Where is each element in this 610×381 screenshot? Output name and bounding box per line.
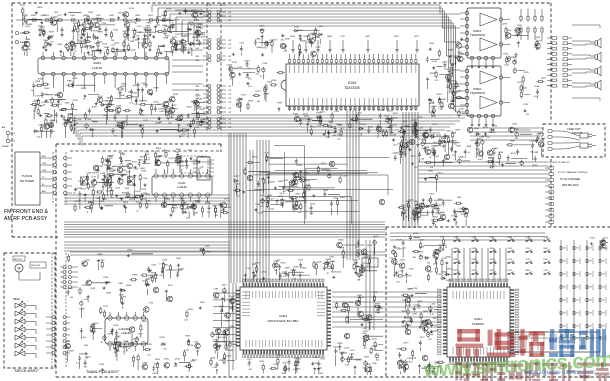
svg-text:R933: R933 (185, 336, 191, 338)
svg-text:Q567: Q567 (472, 248, 476, 250)
svg-text:D404: D404 (188, 309, 194, 311)
svg-text:C869: C869 (515, 34, 521, 36)
svg-text:R865: R865 (67, 80, 73, 82)
svg-text:LA3161: LA3161 (121, 331, 131, 335)
svg-text:Q316: Q316 (205, 202, 211, 204)
svg-text:D224: D224 (113, 325, 119, 327)
svg-text:IC201: IC201 (93, 61, 101, 65)
svg-text:0.022: 0.022 (270, 209, 275, 211)
svg-text:TUN101: TUN101 (22, 174, 33, 178)
svg-text:C961: C961 (298, 260, 304, 262)
svg-text:C682: C682 (200, 302, 206, 304)
svg-text:R349: R349 (441, 138, 447, 140)
svg-text:R706: R706 (333, 198, 339, 200)
svg-text:D552: D552 (517, 82, 523, 84)
svg-text:C698: C698 (92, 173, 98, 175)
svg-text:R430: R430 (142, 321, 148, 323)
svg-text:R552: R552 (192, 360, 198, 362)
svg-text:D374: D374 (118, 12, 124, 14)
svg-text:R657: R657 (179, 269, 185, 271)
svg-text:C959: C959 (305, 185, 311, 187)
svg-text:M: M (18, 267, 21, 271)
svg-text:C473: C473 (181, 44, 187, 46)
svg-text:R510: R510 (488, 157, 494, 159)
svg-text:FM ANT: FM ANT (2, 145, 10, 148)
svg-text:C803: C803 (267, 81, 273, 83)
svg-text:L: L (27, 341, 28, 343)
svg-text:Q870: Q870 (179, 198, 185, 200)
svg-text:R524: R524 (141, 171, 147, 173)
svg-text:Q849: Q849 (446, 257, 452, 259)
svg-text:R724: R724 (103, 277, 109, 279)
svg-text:220: 220 (85, 358, 88, 360)
svg-text:0.01: 0.01 (83, 337, 87, 339)
svg-text:C393: C393 (544, 270, 548, 272)
svg-text:R825: R825 (437, 94, 443, 96)
svg-text:R186: R186 (510, 57, 516, 59)
svg-text:C735: C735 (398, 270, 404, 272)
svg-text:100: 100 (70, 297, 73, 299)
svg-text:D381: D381 (544, 259, 548, 261)
svg-text:Q533: Q533 (173, 94, 179, 96)
svg-text:C667: C667 (236, 99, 242, 101)
svg-text:R239: R239 (293, 266, 299, 268)
svg-text:C589: C589 (536, 133, 542, 135)
svg-text:L: L (27, 317, 28, 319)
svg-text:100: 100 (287, 368, 290, 370)
svg-text:OUT: OUT (228, 44, 231, 46)
svg-text:R432: R432 (88, 12, 94, 14)
svg-text:Q643: Q643 (419, 239, 425, 241)
svg-text:D641: D641 (114, 43, 120, 45)
svg-text:C995: C995 (86, 119, 92, 121)
svg-text:R687: R687 (510, 141, 516, 143)
svg-text:D137: D137 (372, 339, 378, 341)
svg-text:R720: R720 (508, 270, 512, 272)
svg-text:R447: R447 (92, 121, 98, 123)
svg-text:TC9297F: TC9297F (472, 322, 485, 326)
svg-text:220: 220 (163, 349, 166, 351)
svg-text:R859: R859 (38, 7, 44, 9)
svg-text:Q195: Q195 (502, 24, 508, 26)
svg-text:R848: R848 (81, 88, 87, 90)
svg-text:R748: R748 (534, 86, 540, 88)
svg-text:D132: D132 (113, 30, 119, 32)
svg-text:Q627: Q627 (541, 77, 547, 79)
svg-text:D791: D791 (538, 40, 544, 42)
svg-text:0.01: 0.01 (476, 149, 480, 151)
svg-text:Q688: Q688 (472, 259, 476, 261)
svg-text:D177: D177 (398, 249, 404, 251)
svg-text:220: 220 (393, 144, 396, 146)
svg-text:TDA1557Q: TDA1557Q (470, 91, 486, 95)
svg-text:D813: D813 (450, 101, 456, 103)
svg-text:Q129: Q129 (411, 156, 417, 158)
svg-text:R241: R241 (132, 161, 138, 163)
svg-text:0.022: 0.022 (504, 64, 509, 66)
svg-text:R160: R160 (187, 106, 193, 108)
svg-text:R777: R777 (123, 31, 129, 33)
svg-text:1000P: 1000P (431, 116, 437, 118)
svg-text:C862: C862 (490, 270, 494, 272)
svg-text:OUT: OUT (228, 127, 231, 129)
svg-text:Q784: Q784 (169, 158, 175, 160)
svg-text:Q170: Q170 (280, 193, 286, 195)
svg-text:L: L (27, 333, 28, 335)
svg-text:OUT: OUT (228, 102, 231, 104)
svg-text:MINI DIN JACK: MINI DIN JACK (562, 184, 579, 187)
svg-text:C798: C798 (334, 111, 340, 113)
svg-text:Q218: Q218 (229, 326, 235, 328)
svg-text:TDA1557Q: TDA1557Q (470, 33, 486, 37)
svg-text:Q970: Q970 (326, 170, 332, 172)
svg-text:Q666: Q666 (25, 39, 31, 41)
svg-text:C985: C985 (38, 106, 44, 108)
svg-text:0.022: 0.022 (102, 165, 107, 167)
svg-text:C373: C373 (137, 26, 143, 28)
svg-text:R109: R109 (273, 364, 279, 366)
svg-text:C176: C176 (349, 350, 355, 352)
svg-text:1000P: 1000P (270, 182, 276, 184)
svg-text:L: L (27, 309, 28, 311)
svg-text:C409: C409 (490, 248, 494, 250)
svg-text:R632: R632 (428, 171, 434, 173)
svg-text:Q568: Q568 (285, 38, 291, 40)
svg-text:R499: R499 (92, 106, 98, 108)
svg-text:0.01: 0.01 (37, 137, 41, 139)
svg-text:R981: R981 (98, 32, 104, 34)
svg-text:OSC: OSC (42, 163, 47, 165)
svg-text:AM ANT: AM ANT (20, 41, 28, 44)
svg-text:R835: R835 (108, 101, 114, 103)
svg-text:R553: R553 (107, 98, 113, 100)
svg-text:1000P: 1000P (68, 351, 74, 353)
svg-text:R969: R969 (296, 194, 302, 196)
svg-text:C572: C572 (247, 359, 253, 361)
svg-text:C124: C124 (392, 125, 398, 127)
svg-text:100: 100 (103, 115, 106, 117)
svg-text:C370: C370 (232, 62, 238, 64)
svg-text:AGC: AGC (42, 190, 47, 193)
svg-text:100: 100 (136, 202, 139, 204)
svg-text:Q776: Q776 (162, 260, 168, 262)
svg-text:OUT: OUT (228, 90, 231, 92)
svg-text:D685: D685 (454, 259, 458, 261)
svg-text:D816: D816 (292, 174, 298, 176)
svg-text:C513: C513 (218, 360, 224, 362)
svg-text:R996: R996 (93, 31, 99, 33)
svg-text:R991: R991 (147, 23, 153, 25)
svg-text:1000P: 1000P (182, 208, 188, 210)
svg-text:IC901: IC901 (474, 317, 482, 321)
svg-text:LA1135: LA1135 (92, 66, 102, 70)
svg-text:Q906: Q906 (352, 260, 358, 262)
svg-text:R565: R565 (79, 354, 85, 356)
svg-text:0.01: 0.01 (111, 190, 115, 192)
svg-text:220: 220 (427, 263, 430, 265)
svg-text:D588: D588 (111, 170, 117, 172)
svg-text:OUT: OUT (228, 119, 231, 121)
svg-text:MOTOR: MOTOR (14, 259, 22, 261)
svg-text:D412: D412 (176, 258, 182, 260)
svg-text:R655: R655 (122, 83, 128, 85)
svg-text:Q843: Q843 (262, 271, 268, 273)
svg-text:"DECK ASSY": "DECK ASSY" (14, 368, 40, 373)
svg-text:R980: R980 (133, 275, 139, 277)
svg-text:R252: R252 (393, 113, 399, 115)
svg-text:1000P: 1000P (79, 309, 85, 311)
svg-text:C595: C595 (402, 139, 408, 141)
svg-text:D479: D479 (403, 343, 409, 345)
svg-text:D561: D561 (205, 246, 211, 248)
svg-text:C385: C385 (65, 103, 71, 105)
svg-text:D270: D270 (366, 256, 372, 258)
svg-text:D546: D546 (421, 140, 427, 142)
svg-text:R532: R532 (20, 5, 26, 7)
svg-text:R975: R975 (172, 37, 178, 39)
svg-text:C224: C224 (141, 189, 147, 191)
svg-text:C594: C594 (526, 248, 530, 250)
svg-text:C131: C131 (283, 180, 289, 182)
svg-text:R804: R804 (138, 159, 144, 161)
svg-text:0.022: 0.022 (152, 373, 157, 375)
svg-text:FM FRONT END &: FM FRONT END & (4, 209, 49, 215)
svg-text:C960: C960 (143, 178, 149, 180)
svg-text:R503: R503 (156, 148, 162, 150)
svg-text:C623: C623 (524, 72, 530, 74)
svg-text:0.01: 0.01 (98, 53, 102, 55)
svg-text:OUT: OUT (228, 98, 231, 100)
svg-text:100: 100 (357, 280, 360, 282)
svg-text:C554: C554 (407, 362, 413, 364)
svg-text:C540: C540 (522, 88, 528, 90)
svg-text:D361: D361 (277, 355, 283, 357)
svg-text:Q525: Q525 (317, 262, 323, 264)
svg-text:GND: GND (42, 170, 47, 172)
svg-text:100: 100 (65, 123, 68, 125)
svg-text:D785: D785 (340, 197, 346, 199)
svg-text:Q122: Q122 (508, 259, 512, 261)
svg-text:uPD17012GF-537-3BC: uPD17012GF-537-3BC (267, 319, 299, 323)
svg-text:Q719: Q719 (256, 91, 262, 93)
svg-text:C395: C395 (82, 285, 88, 287)
svg-text:Q367: Q367 (318, 26, 324, 28)
svg-text:Q846: Q846 (441, 99, 447, 101)
svg-text:D993: D993 (375, 304, 381, 306)
svg-text:R854: R854 (433, 216, 439, 218)
svg-text:220: 220 (486, 137, 489, 139)
svg-text:Q957: Q957 (255, 263, 261, 265)
svg-text:100: 100 (257, 101, 260, 103)
svg-text:D806: D806 (454, 248, 458, 250)
svg-text:C911: C911 (151, 264, 157, 266)
svg-text:R409: R409 (425, 323, 431, 325)
svg-text:C497: C497 (407, 289, 413, 291)
svg-text:1000P: 1000P (106, 292, 112, 294)
svg-text:Q548: Q548 (35, 81, 41, 83)
svg-text:Q386: Q386 (434, 146, 440, 148)
svg-text:C918: C918 (400, 259, 406, 261)
svg-text:D193: D193 (160, 337, 166, 339)
svg-text:OUT: OUT (228, 40, 231, 42)
svg-text:LA1140: LA1140 (177, 185, 187, 189)
svg-text:OUT: OUT (228, 108, 231, 110)
svg-text:L: L (27, 349, 28, 351)
svg-text:R693: R693 (59, 110, 65, 112)
svg-text:OUT: OUT (228, 20, 231, 22)
svg-text:D341: D341 (407, 358, 413, 360)
svg-text:C351: C351 (397, 143, 403, 145)
svg-text:D524: D524 (123, 202, 129, 204)
svg-text:D172: D172 (103, 306, 109, 308)
svg-text:Q412: Q412 (339, 128, 345, 130)
svg-text:C635: C635 (512, 124, 518, 126)
svg-text:1000P: 1000P (358, 275, 364, 277)
svg-text:D163: D163 (136, 191, 142, 193)
svg-text:C740: C740 (148, 277, 154, 279)
svg-text:TDA7340S: TDA7340S (344, 86, 360, 90)
svg-text:R342: R342 (544, 248, 548, 250)
svg-text:AM RF PCB ASSY: AM RF PCB ASSY (4, 216, 48, 222)
svg-text:TO CD CHANGER: TO CD CHANGER (560, 178, 580, 181)
svg-text:R205: R205 (293, 114, 299, 116)
svg-text:C373: C373 (107, 334, 113, 336)
svg-text:www.antenna-training.com: www.antenna-training.com (523, 370, 595, 376)
svg-text:R783: R783 (277, 102, 283, 104)
svg-text:IC301: IC301 (348, 81, 357, 85)
svg-text:L: L (27, 325, 28, 327)
svg-text:0.01: 0.01 (184, 320, 188, 322)
svg-text:R941: R941 (511, 153, 517, 155)
svg-text:R494: R494 (73, 23, 79, 25)
svg-text:0.01: 0.01 (463, 157, 467, 159)
svg-text:OUT: OUT (228, 112, 231, 114)
svg-text:0.022: 0.022 (446, 280, 451, 282)
svg-text:C702: C702 (45, 116, 51, 118)
svg-text:C770: C770 (356, 360, 362, 362)
svg-text:R525: R525 (397, 239, 403, 241)
svg-text:R653: R653 (433, 318, 439, 320)
svg-text:Q133: Q133 (90, 288, 96, 290)
svg-text:OUT: OUT (228, 12, 231, 14)
svg-text:OUT: OUT (228, 94, 231, 96)
svg-text:C491: C491 (313, 357, 319, 359)
svg-text:C665: C665 (163, 264, 169, 266)
svg-text:D179: D179 (81, 188, 87, 190)
svg-text:R409: R409 (248, 100, 254, 102)
svg-text:C346: C346 (456, 146, 462, 148)
svg-text:R873: R873 (127, 21, 133, 23)
svg-text:C774: C774 (526, 259, 530, 261)
svg-text:Q204: Q204 (200, 36, 206, 38)
svg-text:R400: R400 (162, 25, 168, 27)
svg-text:220: 220 (364, 348, 367, 350)
svg-text:C548: C548 (262, 63, 268, 65)
svg-text:OUT: OUT (228, 56, 231, 58)
svg-text:R899: R899 (212, 206, 218, 208)
svg-text:C493: C493 (508, 248, 512, 250)
svg-text:R765: R765 (73, 100, 79, 102)
svg-text:PINCH SW: PINCH SW (31, 265, 40, 267)
svg-text:1000P: 1000P (438, 107, 444, 109)
svg-text:100: 100 (282, 373, 285, 375)
svg-text:R206: R206 (271, 80, 277, 82)
svg-text:R911: R911 (259, 361, 265, 363)
svg-text:D833: D833 (285, 268, 291, 270)
svg-text:R419: R419 (297, 165, 303, 167)
svg-text:R877: R877 (360, 297, 366, 299)
svg-text:R151: R151 (43, 94, 49, 96)
svg-text:AM: AM (2, 126, 5, 129)
svg-text:C693: C693 (535, 37, 541, 39)
svg-text:R836: R836 (427, 200, 433, 202)
svg-text:C965: C965 (362, 333, 368, 335)
svg-text:0.022: 0.022 (84, 46, 89, 48)
svg-text:R161: R161 (168, 285, 174, 287)
svg-text:C856: C856 (413, 201, 419, 203)
svg-text:R319: R319 (74, 201, 80, 203)
svg-text:C790: C790 (147, 344, 153, 346)
svg-text:D710: D710 (129, 8, 135, 10)
svg-text:D125: D125 (320, 112, 326, 114)
svg-text:C941: C941 (184, 36, 190, 38)
svg-text:R532: R532 (167, 9, 173, 11)
svg-text:C763: C763 (121, 297, 127, 299)
svg-text:TO CD CHANGER CONTROL: TO CD CHANGER CONTROL (558, 171, 588, 174)
svg-text:R400: R400 (339, 240, 345, 242)
svg-text:FM TUNER: FM TUNER (20, 179, 34, 183)
svg-text:C152: C152 (232, 68, 238, 70)
svg-text:L: L (27, 301, 28, 303)
svg-text:D119: D119 (224, 199, 230, 201)
svg-text:Q816: Q816 (490, 259, 494, 261)
svg-text:C802: C802 (472, 270, 476, 272)
svg-text:C229: C229 (323, 190, 329, 192)
svg-text:0.022: 0.022 (169, 52, 174, 54)
svg-text:100: 100 (337, 139, 340, 141)
svg-text:1000P: 1000P (331, 272, 337, 274)
svg-text:C790: C790 (373, 292, 379, 294)
svg-text:C102: C102 (84, 299, 90, 301)
svg-text:0.01: 0.01 (178, 49, 182, 51)
svg-text:R425: R425 (364, 357, 370, 359)
svg-text:*OPTION* 2X LINE OUT: *OPTION* 2X LINE OUT (548, 162, 571, 164)
svg-text:C969: C969 (44, 88, 50, 90)
svg-text:C403: C403 (68, 114, 74, 116)
svg-text:C980: C980 (409, 269, 415, 271)
svg-text:R460: R460 (119, 153, 125, 155)
svg-text:C903: C903 (115, 114, 121, 116)
svg-text:220: 220 (159, 121, 162, 123)
svg-text:C848: C848 (466, 146, 472, 148)
svg-text:220: 220 (207, 212, 210, 214)
svg-text:R369: R369 (49, 32, 55, 34)
svg-text:C785: C785 (316, 47, 322, 49)
svg-text:HEAD: HEAD (13, 298, 20, 301)
svg-text:D725: D725 (115, 188, 121, 190)
svg-text:D160: D160 (154, 101, 160, 103)
svg-text:C940: C940 (372, 363, 378, 365)
svg-text:R569: R569 (300, 41, 306, 43)
svg-text:1000P: 1000P (228, 307, 234, 309)
svg-text:Q518: Q518 (93, 323, 99, 325)
svg-text:R173: R173 (102, 44, 108, 46)
svg-text:D488: D488 (163, 37, 169, 39)
svg-text:220: 220 (414, 167, 417, 169)
svg-text:R930: R930 (337, 343, 343, 345)
svg-text:C364: C364 (458, 157, 464, 159)
svg-text:R608: R608 (526, 270, 530, 272)
